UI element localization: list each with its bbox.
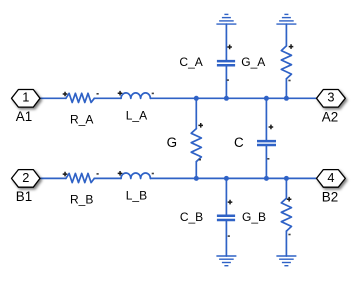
plus R_A — [63, 92, 68, 97]
wire C column: node A to top plate — [265, 98, 267, 140]
plus C — [269, 125, 274, 130]
svg-text:C: C — [234, 135, 244, 150]
capacitor C plates — [257, 140, 276, 143]
wire A line: port1 to R_A — [40, 97, 66, 99]
ground below C_B — [216, 255, 236, 257]
port 4 hexagon — [317, 170, 346, 188]
svg-text:A2: A2 — [322, 109, 338, 124]
minus C_A — [227, 79, 229, 81]
wire B line: L_B to port4 — [150, 177, 316, 179]
plus L_A — [118, 91, 123, 96]
svg-text:B2: B2 — [322, 189, 338, 204]
wire G_B column: node B to resistor — [285, 178, 287, 198]
svg-text:4: 4 — [327, 170, 334, 185]
svg-text:A1: A1 — [16, 109, 32, 124]
svg-text:G_B: G_B — [242, 210, 266, 224]
wire B line: R_B to L_B — [94, 177, 121, 179]
minus C_B — [228, 235, 230, 237]
minus L_A — [152, 93, 154, 95]
svg-text:1: 1 — [22, 90, 29, 105]
port 3 hexagon — [317, 90, 346, 108]
wire C_A column: bottom plate to node A — [225, 67, 227, 99]
inductor L_B — [121, 173, 150, 179]
ground below G_B — [276, 255, 296, 257]
node B-G_B junction — [284, 176, 289, 181]
svg-text:3: 3 — [327, 90, 334, 105]
minus L_B — [152, 173, 154, 175]
svg-text:G: G — [167, 135, 177, 150]
minus G — [199, 159, 201, 161]
plus G_B — [287, 197, 292, 202]
svg-text:B1: B1 — [16, 189, 32, 204]
wire C_B column: bottom plate to ground — [225, 221, 227, 256]
minus R_B — [97, 173, 99, 175]
minus G_B — [288, 234, 290, 236]
node A-C_A junction — [224, 96, 229, 101]
wire G column: node A to resistor — [195, 98, 197, 128]
wire C_A column: ground stem to top plate — [225, 24, 227, 60]
capacitor C_A plates — [217, 60, 235, 63]
capacitor C_B plates — [217, 215, 235, 218]
node B-C junction — [264, 176, 269, 181]
svg-text:L_A: L_A — [126, 108, 147, 122]
resistor G_A — [281, 46, 291, 79]
resistor R_B — [66, 173, 94, 182]
wire G_A column: ground stem to resistor — [285, 24, 287, 46]
svg-text:2: 2 — [22, 170, 29, 185]
resistor R_A — [66, 93, 94, 102]
wire B line: port2 to R_B — [40, 177, 66, 179]
wire C_B column: node B to top plate — [225, 178, 227, 214]
port 1 hexagon — [12, 90, 41, 108]
ground above C_A — [224, 13, 228, 15]
svg-text:L_B: L_B — [126, 188, 147, 202]
wire G_B column: resistor to ground — [285, 231, 287, 256]
resistor G — [191, 129, 201, 162]
node A-C junction — [264, 96, 269, 101]
ground above G_A — [284, 13, 288, 15]
wire C column: bottom plate to node B — [265, 146, 267, 178]
plus L_B — [118, 171, 123, 176]
wire A line: R_A to L_A — [94, 97, 121, 99]
plus C_A — [227, 45, 232, 50]
plus G — [198, 123, 203, 128]
node A-G junction — [194, 96, 199, 101]
plus C_B — [228, 200, 233, 205]
svg-text:R_B: R_B — [70, 192, 93, 206]
minus C — [267, 158, 269, 160]
svg-text:C_A: C_A — [179, 55, 202, 69]
svg-text:G_A: G_A — [241, 55, 265, 69]
svg-text:R_A: R_A — [70, 112, 93, 126]
svg-text:C_B: C_B — [180, 210, 203, 224]
wire G column: resistor to node B — [195, 162, 197, 179]
port 2 hexagon — [12, 170, 41, 188]
plus R_B — [63, 172, 68, 177]
minus R_A — [97, 93, 99, 95]
minus G_A — [288, 80, 290, 82]
wire G_A column: resistor to node A — [285, 79, 287, 99]
inductor L_A — [121, 93, 150, 99]
wire A line: L_A to port3 — [150, 97, 316, 99]
node A-G_A junction — [284, 96, 289, 101]
node B-C_B junction — [224, 176, 229, 181]
resistor G_B — [281, 198, 291, 231]
node B-G junction — [194, 176, 199, 181]
plus G_A — [289, 44, 294, 49]
